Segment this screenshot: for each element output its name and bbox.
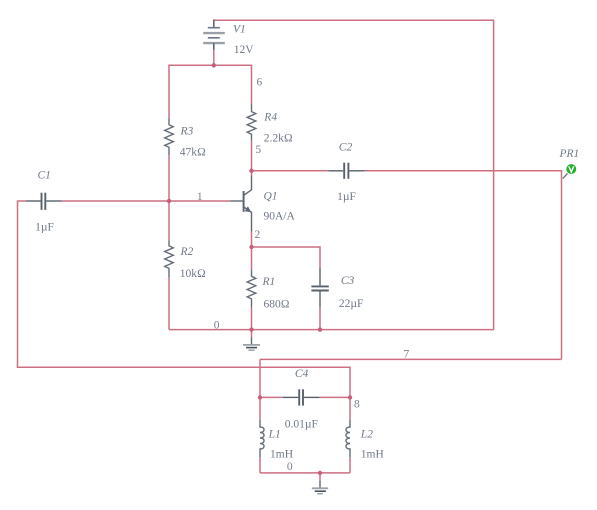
resistor R1 <box>247 269 256 307</box>
junction C4 right node 8 <box>348 395 352 399</box>
svg-text:R3: R3 <box>180 126 194 138</box>
svg-text:90A/A: 90A/A <box>264 211 296 223</box>
probe PR1 tail <box>563 174 568 179</box>
junction node 1 <box>167 199 171 203</box>
transistor Q1 emitter arrow <box>245 206 252 212</box>
wire supply rail y65 with corners down <box>169 65 252 117</box>
wire C1 left down right to C4 node8 <box>18 201 351 397</box>
wire tank left upper <box>259 359 261 419</box>
svg-text:10kΩ: 10kΩ <box>180 268 206 280</box>
junction rail R1 <box>249 327 253 331</box>
wire R1 to 0 rail <box>251 308 253 330</box>
wire net0 top loop from battery negative to right side down <box>214 20 494 329</box>
wire emitter to node 2 <box>251 232 253 248</box>
svg-text:1µF: 1µF <box>35 221 54 233</box>
transistor Q1 <box>230 176 251 232</box>
svg-text:0: 0 <box>214 319 220 331</box>
svg-text:L2: L2 <box>360 428 373 440</box>
capacitor C3 <box>311 268 328 308</box>
svg-text:C3: C3 <box>341 275 355 287</box>
svg-text:V1: V1 <box>233 24 246 36</box>
junction C4 left node <box>258 395 262 399</box>
wire C4 right red <box>319 396 350 398</box>
inductor L1 <box>260 420 264 457</box>
svg-text:8: 8 <box>354 399 360 411</box>
junction tank ground <box>318 471 322 475</box>
junction rail C3 <box>318 327 322 331</box>
svg-text:2.2kΩ: 2.2kΩ <box>264 132 293 144</box>
svg-text:2: 2 <box>255 229 261 241</box>
wire C4 left red <box>260 396 283 398</box>
probe PR1 <box>566 164 576 174</box>
svg-text:L1: L1 <box>268 428 281 440</box>
junction node 2 <box>249 245 253 249</box>
junction battery plus <box>212 63 216 67</box>
svg-text:1µF: 1µF <box>337 191 356 203</box>
wire ground1 stem red <box>251 330 253 338</box>
wire battery bottom stem <box>213 50 215 66</box>
wire R4 to node 5 junction <box>251 141 253 171</box>
svg-text:Q1: Q1 <box>264 191 278 203</box>
svg-text:C4: C4 <box>295 368 309 380</box>
wire C3 to 0 rail <box>319 307 321 329</box>
wire base red segment <box>169 200 230 202</box>
capacitor C4 <box>283 389 320 405</box>
battery V1 <box>203 20 225 50</box>
wire node 1 to R2 <box>168 201 170 240</box>
svg-text:680Ω: 680Ω <box>264 298 290 310</box>
inductor L2 <box>346 420 350 457</box>
capacitor C1 <box>26 193 62 210</box>
wire tank bottom rail <box>260 472 350 474</box>
svg-text:0: 0 <box>287 461 293 473</box>
capacitor C2 <box>328 163 364 179</box>
svg-text:1mH: 1mH <box>361 449 384 461</box>
wire net7 <box>260 358 562 360</box>
svg-text:1: 1 <box>197 191 203 203</box>
ground tank <box>312 481 328 494</box>
junction node 5 <box>249 169 253 173</box>
wire tank right lower <box>349 457 351 473</box>
svg-text:PR1: PR1 <box>559 148 580 160</box>
svg-text:6: 6 <box>257 77 263 89</box>
svg-text:47kΩ: 47kΩ <box>180 147 206 159</box>
wire C2 to PR1 corner down to net7 <box>365 171 562 360</box>
wire 0 rail bottom <box>169 329 494 331</box>
ground main <box>243 337 260 350</box>
wire node5 junction to collector <box>251 171 253 176</box>
svg-text:C2: C2 <box>339 142 353 154</box>
wire tank right upper <box>349 397 351 419</box>
resistor R3 <box>165 118 174 156</box>
svg-text:R1: R1 <box>262 276 276 288</box>
wire R3 to node 1 <box>168 155 170 201</box>
svg-text:7: 7 <box>404 348 410 360</box>
svg-text:R4: R4 <box>263 111 277 123</box>
svg-text:12V: 12V <box>234 44 255 56</box>
wire node 2 to C3 corner <box>252 247 321 268</box>
resistor R4 <box>247 103 256 141</box>
svg-text:22µF: 22µF <box>339 298 364 310</box>
svg-text:R2: R2 <box>180 246 194 258</box>
resistor R2 <box>165 240 174 277</box>
svg-text:C1: C1 <box>38 170 51 182</box>
svg-text:0.01µF: 0.01µF <box>285 418 318 430</box>
wire tank left lower <box>259 457 261 473</box>
wire collector line to C2 <box>252 170 329 172</box>
wire R2 to 0 rail <box>168 277 170 330</box>
svg-text:1mH: 1mH <box>270 449 293 461</box>
svg-text:5: 5 <box>255 144 261 156</box>
wire C1 right to node 1 <box>62 200 169 202</box>
wire node2 to R1 <box>251 247 253 269</box>
wire ground2 stem red <box>319 473 321 481</box>
